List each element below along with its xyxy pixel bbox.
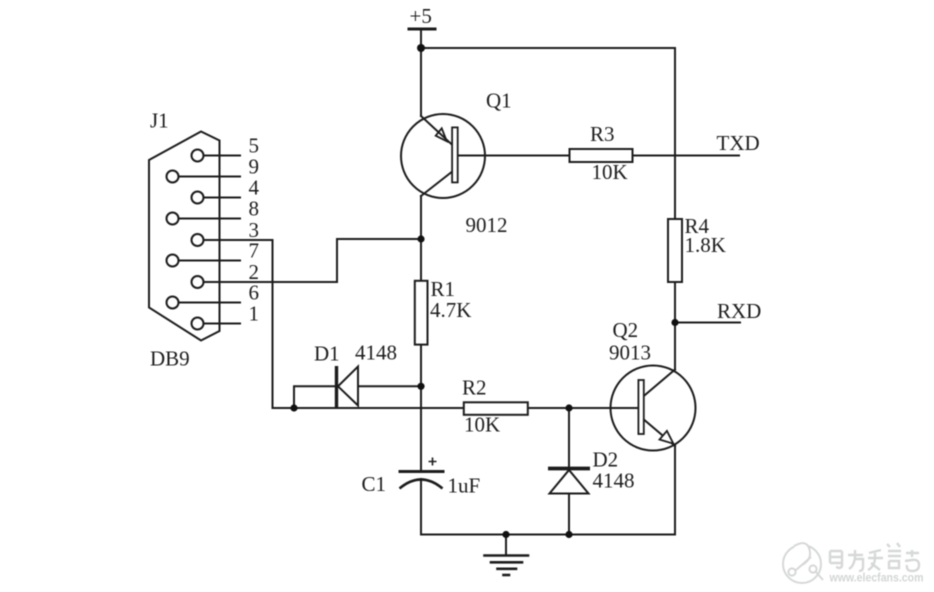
svg-text:7: 7: [249, 239, 260, 263]
svg-text:C1: C1: [362, 472, 387, 496]
svg-text:Q2: Q2: [613, 318, 639, 342]
svg-text:1.8K: 1.8K: [685, 233, 726, 257]
svg-text:4.7K: 4.7K: [430, 298, 471, 322]
svg-text:TXD: TXD: [717, 131, 760, 155]
svg-text:1: 1: [249, 302, 260, 326]
svg-text:9012: 9012: [466, 213, 508, 237]
svg-text:www.elecfans.com: www.elecfans.com: [829, 571, 924, 585]
svg-text:Q1: Q1: [486, 89, 512, 113]
svg-text:+5: +5: [410, 4, 432, 28]
svg-text:4148: 4148: [593, 469, 635, 493]
svg-text:10K: 10K: [464, 413, 500, 437]
svg-text:9013: 9013: [609, 341, 651, 365]
svg-text:R3: R3: [590, 122, 615, 146]
svg-text:4148: 4148: [355, 341, 397, 365]
svg-text:10K: 10K: [592, 160, 628, 184]
svg-text:D1: D1: [314, 342, 340, 366]
svg-text:8: 8: [249, 197, 260, 221]
svg-text:1uF: 1uF: [448, 474, 481, 498]
svg-text:DB9: DB9: [150, 347, 190, 371]
svg-text:RXD: RXD: [717, 299, 761, 323]
svg-text:J1: J1: [150, 109, 169, 133]
svg-text:R2: R2: [462, 376, 487, 400]
